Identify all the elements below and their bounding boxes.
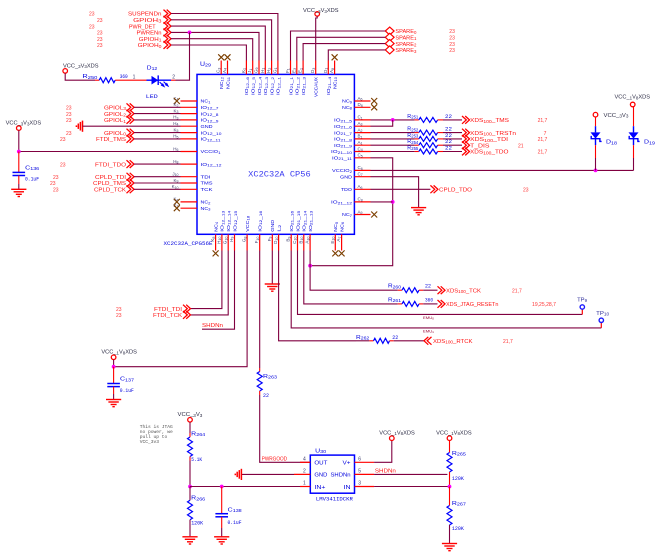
svg-text:IO12_4: IO12_4 xyxy=(257,77,263,95)
svg-text:R250: R250 xyxy=(82,74,98,80)
wire IO21_11 down to TCK net xyxy=(310,158,393,266)
pin K3 IO12_8 (left) xyxy=(174,108,219,117)
wire xyxy=(371,144,415,146)
svg-text:IO12_1: IO12_1 xyxy=(276,77,282,95)
svg-text:IO21_1: IO21_1 xyxy=(288,77,294,95)
svg-text:IN+: IN+ xyxy=(314,485,325,491)
svg-text:B9: B9 xyxy=(286,237,292,242)
pin 6 V+ xyxy=(355,456,375,462)
svg-text:NC3: NC3 xyxy=(201,206,211,212)
wire xyxy=(65,73,95,80)
svg-text:19,25,28,7: 19,25,28,7 xyxy=(532,302,556,308)
pin C3 NC12 (top) xyxy=(216,54,225,89)
svg-text:VCC_1V8XDS: VCC_1V8XDS xyxy=(615,95,651,101)
svg-text:IO12_12: IO12_12 xyxy=(201,162,222,168)
wire LED cathode to PWRENn xyxy=(176,32,190,80)
svg-text:IO12_2: IO12_2 xyxy=(269,77,275,95)
wire xyxy=(371,138,415,140)
svg-text:B1: B1 xyxy=(358,134,363,140)
svg-text:NC6: NC6 xyxy=(339,222,345,232)
svg-text:A9: A9 xyxy=(358,209,363,215)
wire xyxy=(310,251,398,291)
pin C10 IO21_15 (bottom) xyxy=(292,211,301,251)
svg-text:360: 360 xyxy=(120,74,128,80)
svg-text:23: 23 xyxy=(449,48,455,54)
svg-text:VCC_1V8XDS: VCC_1V8XDS xyxy=(436,431,472,437)
svg-text:EMU0: EMU0 xyxy=(423,316,434,321)
svg-text:IO21_12: IO21_12 xyxy=(331,200,352,206)
page ref GPIOH0 23 xyxy=(97,43,103,49)
svg-text:NC12: NC12 xyxy=(219,77,225,89)
wire xyxy=(259,251,261,369)
resistor R255 22 xyxy=(407,146,452,155)
wire EMU0 xyxy=(298,251,583,315)
wire xyxy=(279,251,356,341)
svg-text:A5: A5 xyxy=(358,96,363,102)
svg-text:0.1uF: 0.1uF xyxy=(25,177,39,183)
svg-text:IO12_6: IO12_6 xyxy=(244,77,250,95)
junction C137 xyxy=(112,365,116,369)
svg-text:SPARE0: SPARE0 xyxy=(395,29,417,35)
svg-text:C136: C136 xyxy=(25,165,40,171)
off-page connector GPIOL1 xyxy=(104,116,134,124)
pin E3 IO21_2 (top) xyxy=(291,61,300,96)
svg-text:R267: R267 xyxy=(452,501,467,507)
pin E1 IO21_3 (top) xyxy=(298,61,307,96)
wire xyxy=(134,119,181,121)
power VCC_3V3XDS (LED supply) xyxy=(63,63,99,73)
net label SHDNn (U30) xyxy=(375,468,396,474)
junction C138 xyxy=(220,485,224,489)
op-amp U30 reference xyxy=(315,448,327,454)
svg-text:23: 23 xyxy=(449,29,455,35)
svg-text:IO21_8: IO21_8 xyxy=(334,137,352,143)
ground (C138) xyxy=(214,537,229,544)
wire IN+ net xyxy=(190,486,310,488)
svg-text:NC7: NC7 xyxy=(342,212,352,218)
off-page connector SUSPENDn xyxy=(128,10,171,18)
wire FTDI_TCK net xyxy=(190,251,228,315)
svg-text:23: 23 xyxy=(66,106,72,112)
svg-text:22: 22 xyxy=(445,114,452,120)
svg-text:GPIOL3: GPIOL3 xyxy=(104,106,127,112)
off-page connector GPIOL2 xyxy=(104,110,134,118)
pin C5 IO21_11 (right) xyxy=(332,153,371,162)
svg-text:R261: R261 xyxy=(388,297,402,303)
off-page connector PWRENn xyxy=(137,29,172,37)
svg-text:120K: 120K xyxy=(452,526,464,532)
page ref FTDI_TMS 23 xyxy=(60,137,66,143)
wire xyxy=(443,138,462,140)
svg-text:VCC_1V8XDS: VCC_1V8XDS xyxy=(101,350,137,356)
wire xyxy=(371,132,415,134)
svg-text:PWRGOOD: PWRGOOD xyxy=(262,456,287,462)
svg-text:C3: C3 xyxy=(216,68,222,73)
wire VCCIO2 to clamp diodes xyxy=(371,169,634,171)
svg-text:VCCAUX: VCCAUX xyxy=(314,76,320,97)
svg-text:C6: C6 xyxy=(358,165,363,171)
page ref T_DIS 21 xyxy=(518,143,524,149)
svg-text:D1: D1 xyxy=(323,68,329,73)
svg-text:TP10: TP10 xyxy=(596,311,610,317)
pin A5 NC9 (right) xyxy=(342,96,377,105)
pin K4 NC1 (left) xyxy=(174,96,211,105)
svg-text:22: 22 xyxy=(445,133,452,139)
pin number 1 (LED anode) xyxy=(133,74,136,80)
page ref SPARE2 23 xyxy=(449,42,455,48)
svg-text:23: 23 xyxy=(66,118,72,124)
svg-text:IO12_16: IO12_16 xyxy=(258,211,264,232)
pin K2 IO12_7 (left) xyxy=(174,102,219,111)
wire xyxy=(316,16,318,60)
svg-text:GPIOH0: GPIOH0 xyxy=(138,43,163,49)
svg-text:IO12_14: IO12_14 xyxy=(226,211,232,232)
svg-text:FTDI_TMS: FTDI_TMS xyxy=(96,137,126,143)
svg-text:R265: R265 xyxy=(452,451,467,457)
svg-text:21: 21 xyxy=(518,143,524,149)
off-page connector GPIOL3 xyxy=(104,103,134,111)
pin C1 IO21_5 (right) xyxy=(334,115,371,124)
capacitor C136 0.1uF xyxy=(13,152,40,190)
svg-text:A8: A8 xyxy=(329,68,335,73)
wire SHDNn xyxy=(374,473,447,475)
diode D18 (Schottky clamp to VCC_3V3) xyxy=(591,117,618,170)
svg-text:23: 23 xyxy=(116,313,122,319)
svg-text:NC9: NC9 xyxy=(342,99,352,105)
svg-text:IO21_2: IO21_2 xyxy=(295,77,301,95)
page ref PWR_DET 23 xyxy=(89,24,95,30)
off-page connector FTDI_TMS xyxy=(96,135,134,143)
wire xyxy=(134,113,181,115)
svg-text:T_DIS: T_DIS xyxy=(470,143,490,149)
pin A9 NC7 (right) xyxy=(342,209,377,218)
pin 2 GND xyxy=(294,468,310,474)
op-amp U30 body LMV341IDCKR xyxy=(310,455,354,503)
svg-text:D19: D19 xyxy=(644,140,656,146)
ground (C137) xyxy=(106,400,121,407)
wire xyxy=(304,251,398,304)
wire VCC18 rail xyxy=(114,251,248,367)
svg-text:C4: C4 xyxy=(358,146,363,152)
power VCC_1V8XDS (D19) xyxy=(615,95,651,107)
svg-text:23: 23 xyxy=(66,131,72,137)
resistor R261 360 xyxy=(388,297,438,306)
svg-text:IO21_14: IO21_14 xyxy=(302,211,308,232)
ground (F9) xyxy=(265,284,280,291)
svg-text:A3: A3 xyxy=(358,121,363,127)
off-page connector PWR_DET xyxy=(129,22,171,30)
svg-text:IO12_9: IO12_9 xyxy=(201,118,219,124)
wire xyxy=(371,119,415,121)
pin G9 IO12_4 (top) xyxy=(254,61,263,96)
wire xyxy=(134,138,181,140)
svg-text:PWR_DET: PWR_DET xyxy=(129,24,156,30)
svg-text:5: 5 xyxy=(358,468,361,474)
pin D1 IO21_4 (top) xyxy=(323,61,332,96)
off-page connector GPIOH3 xyxy=(133,16,171,24)
pin C7 GND (right) xyxy=(340,172,371,181)
page ref SPARE0 23 xyxy=(449,29,455,35)
wire xyxy=(134,188,181,190)
svg-text:22: 22 xyxy=(445,139,452,145)
pin C6 VCCIO2 (right) xyxy=(332,165,371,174)
capacitor C138 0.1uF xyxy=(215,487,242,537)
resistor R266 120K xyxy=(188,487,206,537)
svg-text:GPIOH1: GPIOH1 xyxy=(139,37,162,43)
svg-text:23: 23 xyxy=(50,181,56,187)
pin H10 IO12_13 (bottom) xyxy=(216,211,225,251)
svg-text:SPARE2: SPARE2 xyxy=(395,42,417,48)
svg-text:XDS100_TRSTn: XDS100_TRSTn xyxy=(470,131,516,137)
off-page connector FTDI_TCK xyxy=(153,311,191,319)
pin A3 IO21_6 (right) xyxy=(334,121,371,130)
wire PWRGOOD xyxy=(260,395,311,462)
pin 5 SHDNn xyxy=(355,468,375,474)
page ref GPIOL2 23 xyxy=(66,112,72,118)
off-page connector CPLD_TMS xyxy=(93,179,134,187)
svg-text:TDO: TDO xyxy=(341,187,352,193)
svg-text:23: 23 xyxy=(449,42,455,48)
note text xyxy=(140,424,173,445)
svg-text:23: 23 xyxy=(60,137,66,143)
svg-text:FTDI_TDI: FTDI_TDI xyxy=(154,307,183,313)
svg-text:FTDI_TDO: FTDI_TDO xyxy=(95,162,127,168)
svg-text:IO21_7: IO21_7 xyxy=(334,130,352,136)
power VCC_1V8XDS (VCC18 rail) xyxy=(101,350,137,360)
off-page connector XDS100_TDO xyxy=(462,148,509,156)
pin C8 IO21_12 (right) xyxy=(331,197,371,206)
wire EMU1 xyxy=(291,251,601,328)
svg-text:SHDNn: SHDNn xyxy=(375,468,396,474)
svg-text:VCC18: VCC18 xyxy=(245,216,251,232)
svg-text:21,7: 21,7 xyxy=(538,137,548,143)
svg-text:22: 22 xyxy=(425,284,431,290)
pin H6 VCCIO1 (left) xyxy=(173,146,220,155)
net label EMU1 xyxy=(423,329,434,334)
wire GND pin C7 xyxy=(371,177,419,208)
svg-text:XC2C32A_CPG56E: XC2C32A_CPG56E xyxy=(164,240,214,247)
svg-text:C8: C8 xyxy=(358,197,363,203)
wire xyxy=(303,44,385,61)
page ref CPLD_TCK 23 xyxy=(53,188,59,194)
resistor R263 22 xyxy=(257,368,278,399)
ground (C136) xyxy=(11,189,26,196)
pin G1 IO12_1 (top) xyxy=(272,61,281,96)
pin D10 L2 (bottom) xyxy=(273,225,282,251)
svg-text:0.1uF: 0.1uF xyxy=(120,388,134,394)
page ref CPLD_TDI 23 xyxy=(53,175,59,181)
svg-text:G10: G10 xyxy=(223,237,229,245)
svg-text:23: 23 xyxy=(97,43,103,49)
svg-text:GND: GND xyxy=(314,473,327,479)
svg-text:22: 22 xyxy=(445,127,452,133)
wire xyxy=(328,50,385,61)
off-page connector XDS100_TRSTn xyxy=(462,129,516,137)
page ref CPLD_TDO 23 xyxy=(523,188,529,194)
svg-text:H2: H2 xyxy=(266,68,272,73)
off-page connector CPLD_TDO xyxy=(430,185,472,193)
svg-text:23: 23 xyxy=(116,307,122,313)
svg-text:SHDNn: SHDNn xyxy=(331,473,351,479)
test point TP10 xyxy=(596,311,610,323)
svg-text:GND: GND xyxy=(340,174,353,180)
test point TP9 xyxy=(577,298,588,310)
off-page connector CPLD_TCK xyxy=(94,185,134,193)
svg-text:IO21_9: IO21_9 xyxy=(334,143,352,149)
svg-text:R260: R260 xyxy=(388,284,402,290)
off-page connector SPARE2 xyxy=(385,40,417,48)
svg-text:SPARE3: SPARE3 xyxy=(395,48,417,54)
pin E10 NC5 (bottom) xyxy=(330,222,339,257)
wire xyxy=(171,26,265,60)
svg-text:IO21_4: IO21_4 xyxy=(326,77,332,95)
off-page connector GPIOL0 xyxy=(104,129,134,137)
svg-text:C1: C1 xyxy=(358,115,363,121)
svg-text:H10: H10 xyxy=(216,237,222,244)
svg-text:IO21_5: IO21_5 xyxy=(334,118,352,124)
svg-text:H1: H1 xyxy=(260,68,266,73)
svg-text:XC2C32A CP56: XC2C32A CP56 xyxy=(248,172,311,180)
page ref FTDI_TDO 23 xyxy=(60,162,66,168)
svg-text:EMU1: EMU1 xyxy=(423,329,434,334)
pin K1 IO12_6 (top) xyxy=(241,61,250,96)
net label SHDNn xyxy=(202,323,223,329)
svg-text:IO12_8: IO12_8 xyxy=(201,111,219,117)
svg-text:LMV341IDCKR: LMV341IDCKR xyxy=(316,497,354,503)
svg-text:SPARE1: SPARE1 xyxy=(395,36,417,42)
page ref SPARE3 23 xyxy=(449,48,455,54)
svg-text:R255: R255 xyxy=(407,146,419,152)
wire xyxy=(134,176,181,178)
svg-text:2: 2 xyxy=(303,468,306,474)
svg-text:23: 23 xyxy=(449,36,455,42)
pin A8 NC10 (top) xyxy=(329,54,338,89)
off-page connector XDS100_TCK xyxy=(438,286,482,294)
svg-text:D8: D8 xyxy=(358,102,363,108)
page ref XDS100_TCK 21,7 xyxy=(512,288,522,294)
net label EMU0 xyxy=(423,316,434,321)
page ref XDS100_TRSTn 7 xyxy=(544,131,547,137)
wire xyxy=(134,106,181,108)
svg-text:IO12_13: IO12_13 xyxy=(220,211,226,232)
wire xyxy=(271,251,273,285)
pin H1 IO12_3 (top) xyxy=(260,61,269,96)
page ref FTDI_TDI 23 xyxy=(116,307,122,313)
pin J10 TDI (left) xyxy=(172,172,210,181)
svg-text:LED: LED xyxy=(146,93,159,100)
off-page connector GPIOH0 xyxy=(138,41,171,49)
svg-text:A10: A10 xyxy=(305,237,311,244)
svg-text:22: 22 xyxy=(263,393,269,399)
pin H8 IO12_12 (left) xyxy=(173,159,221,168)
svg-text:XDS100_TCK: XDS100_TCK xyxy=(446,288,481,294)
pin C4 IO21_10 (right) xyxy=(331,146,371,155)
off-page connector XDS100_TDI xyxy=(462,135,509,143)
svg-text:IO12_7: IO12_7 xyxy=(201,105,219,111)
svg-text:2: 2 xyxy=(172,74,175,80)
svg-text:23: 23 xyxy=(523,188,529,194)
off-page connector FTDI_TDO xyxy=(95,160,134,168)
svg-text:NC11: NC11 xyxy=(225,77,231,89)
svg-text:21,7: 21,7 xyxy=(538,150,548,156)
svg-text:C137: C137 xyxy=(120,377,135,383)
svg-text:23: 23 xyxy=(97,37,103,43)
svg-text:VCC_3V3: VCC_3V3 xyxy=(604,113,630,119)
page ref CPLD_TMS 23 xyxy=(50,181,56,187)
resistor R265 120K xyxy=(447,441,467,487)
svg-text:VCCIO2: VCCIO2 xyxy=(332,168,352,174)
part name XC2C32A_CPG56E xyxy=(164,240,214,247)
svg-text:IO12_15: IO12_15 xyxy=(232,211,238,232)
svg-text:NC5: NC5 xyxy=(333,222,339,232)
svg-text:R266: R266 xyxy=(191,496,206,502)
svg-text:23: 23 xyxy=(97,18,103,24)
pin A6 TDO (right) xyxy=(341,184,371,193)
svg-text:U30: U30 xyxy=(315,448,327,454)
svg-text:1: 1 xyxy=(133,74,136,80)
svg-text:6: 6 xyxy=(358,456,361,462)
svg-text:C5: C5 xyxy=(358,153,363,159)
pin number 2 (LED cathode) xyxy=(172,74,175,80)
pin F9 GND (bottom) xyxy=(267,219,276,250)
page ref GPIOH1 23 xyxy=(97,37,103,43)
svg-text:23: 23 xyxy=(97,31,103,37)
svg-text:IO12_3: IO12_3 xyxy=(263,77,269,95)
pin 4 OUT xyxy=(300,456,310,462)
svg-text:R253: R253 xyxy=(407,133,419,139)
wire xyxy=(171,32,259,60)
svg-text:NC1: NC1 xyxy=(201,99,211,105)
wire V+ to VCC xyxy=(374,441,392,463)
svg-text:NC4: NC4 xyxy=(213,222,219,232)
pin K8 NC4 (bottom) xyxy=(210,222,219,257)
off-page connector XDS100_RTCK xyxy=(424,337,473,345)
svg-text:GND: GND xyxy=(201,124,214,130)
pin K6 NC2 (left) xyxy=(174,197,211,206)
svg-text:VCC_3v3: VCC_3v3 xyxy=(140,439,160,445)
junction PWRENn/LED xyxy=(188,31,192,35)
svg-text:120K: 120K xyxy=(452,476,464,482)
page ref SPARE1 23 xyxy=(449,36,455,42)
svg-text:G9: G9 xyxy=(254,67,260,73)
svg-text:CPLD_TMS: CPLD_TMS xyxy=(93,181,126,187)
svg-text:XDS_JTAG_RESETn: XDS_JTAG_RESETn xyxy=(446,302,498,308)
svg-text:IO21_10: IO21_10 xyxy=(331,149,352,155)
wire FTDI_TDI net xyxy=(190,251,222,309)
junction IO21_13 xyxy=(308,264,312,268)
svg-text:GPIOL1: GPIOL1 xyxy=(104,118,127,124)
off-page connector XDS_JTAG_RESETn xyxy=(438,300,499,308)
svg-text:GPIOL0: GPIOL0 xyxy=(104,131,127,137)
svg-text:OUT: OUT xyxy=(314,460,328,466)
off-page connector SPARE0 xyxy=(385,27,417,35)
svg-text:21,7: 21,7 xyxy=(503,339,513,345)
svg-text:D12: D12 xyxy=(147,65,158,71)
svg-text:VCC_1V8XDS: VCC_1V8XDS xyxy=(379,431,415,437)
power VCC_3V3XDS (top, to VCCAUX D3) xyxy=(303,8,339,16)
pin B10 IO21_14 (bottom) xyxy=(298,211,307,251)
page ref PWRENn 23 xyxy=(97,31,103,37)
svg-text:IO12_10: IO12_10 xyxy=(201,130,222,136)
svg-text:XDS100_TDO: XDS100_TDO xyxy=(470,150,509,156)
page ref XDS_JTAG_RESETn 19,25,28,7 xyxy=(532,302,556,308)
svg-text:23: 23 xyxy=(53,175,59,181)
svg-text:1: 1 xyxy=(303,481,306,487)
resistor R252 22 xyxy=(407,127,452,136)
pin H9 IO12_15 (bottom) xyxy=(229,211,238,251)
ground (C7) xyxy=(411,208,426,215)
wire xyxy=(171,14,278,61)
